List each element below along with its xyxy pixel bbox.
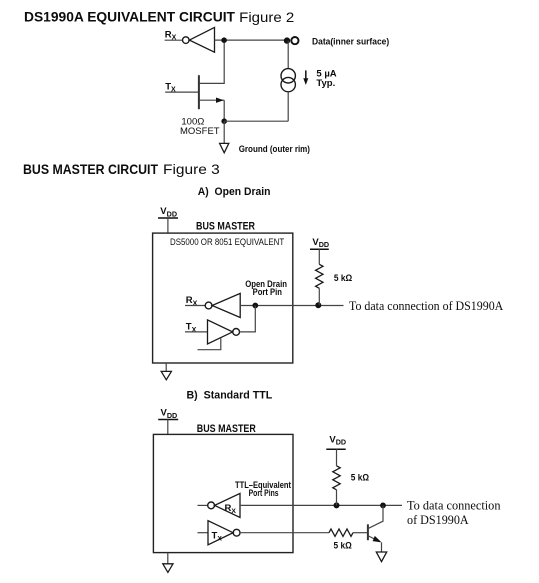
wire Rx data line (B) bbox=[240, 504, 402, 506]
wire source with arrow bbox=[200, 99, 225, 101]
inverter A-Tx bubble bbox=[233, 329, 240, 336]
svg-text:BUS MASTER CIRCUIT: BUS MASTER CIRCUIT bbox=[23, 162, 159, 177]
svg-text:Port Pins: Port Pins bbox=[249, 488, 279, 499]
svg-text:Typ.: Typ. bbox=[316, 78, 335, 89]
wire Rx input bbox=[165, 39, 183, 41]
wire VDD to box A bbox=[167, 218, 169, 233]
transistor Q1 channel bar bbox=[198, 75, 200, 109]
wire Tx stub (B) bbox=[198, 532, 209, 534]
svg-text:VDD: VDD bbox=[160, 206, 177, 218]
resistor R1 5k (A) bbox=[316, 264, 323, 288]
svg-text:VDD: VDD bbox=[329, 434, 346, 446]
wire Rx stub (B) bbox=[198, 504, 208, 506]
inverter U1 bubble bbox=[183, 37, 190, 44]
wire emitter to ground bbox=[381, 542, 383, 551]
wire VDD to resistor B bbox=[336, 449, 338, 466]
svg-text:Port Pin: Port Pin bbox=[253, 287, 283, 298]
inverter U1 triangle bbox=[189, 27, 214, 52]
wire resistor to junction A bbox=[318, 288, 320, 305]
wire from Data node down to current source bbox=[287, 41, 289, 69]
wire Tx output to resistor bbox=[240, 532, 329, 534]
ground (B right) bbox=[376, 552, 386, 562]
junction under resistor (B) bbox=[334, 502, 340, 508]
svg-text:of DS1990A: of DS1990A bbox=[407, 512, 469, 527]
svg-text:To data connection: To data connection bbox=[407, 498, 501, 513]
wire to ground bbox=[223, 121, 225, 143]
inverter B-Tx triangle bbox=[208, 521, 233, 545]
current source I1 (two overlapping circles) bbox=[281, 69, 295, 83]
wire VDD to resistor A bbox=[318, 249, 320, 264]
transistor Q2 base bar bbox=[367, 524, 369, 540]
inverter A-Rx triangle bbox=[212, 293, 240, 317]
svg-text:RX: RX bbox=[225, 503, 237, 515]
svg-text:To data connection of DS1990A: To data connection of DS1990A bbox=[349, 298, 504, 313]
wire Tx (A) bbox=[185, 331, 208, 333]
svg-text:VDD: VDD bbox=[312, 237, 329, 249]
inverter B-Rx bubble bbox=[208, 502, 215, 509]
svg-text:A) Open Drain: A) Open Drain bbox=[198, 186, 271, 198]
ground (B left) bbox=[163, 564, 173, 573]
svg-text:5 kΩ: 5 kΩ bbox=[334, 541, 353, 552]
wire source down to junction bbox=[223, 100, 225, 121]
svg-text:VDD: VDD bbox=[161, 408, 178, 420]
wire port pin line inside box bbox=[240, 305, 293, 307]
transistor Q2 collector bbox=[369, 505, 384, 528]
wire data top bbox=[215, 39, 289, 41]
node Data: filled dot bbox=[284, 37, 290, 43]
svg-text:Figure 3: Figure 3 bbox=[163, 162, 220, 177]
wire VDD to box B bbox=[167, 420, 169, 436]
wire data line out of box A bbox=[293, 305, 344, 307]
wire from current source down bbox=[287, 92, 289, 121]
junction port pin bbox=[252, 303, 258, 309]
wire box A to ground bbox=[165, 363, 167, 371]
wire bottom horizontal bbox=[224, 120, 288, 122]
svg-text:Data(inner surface): Data(inner surface) bbox=[312, 36, 389, 47]
svg-text:5 kΩ: 5 kΩ bbox=[351, 473, 370, 484]
wire box B to ground bbox=[167, 553, 169, 564]
terminal Data: open circle bbox=[291, 37, 298, 44]
svg-text:Figure 2: Figure 2 bbox=[239, 10, 294, 25]
box A bus master bbox=[153, 233, 293, 363]
svg-text:Ground (outer rim): Ground (outer rim) bbox=[239, 144, 310, 155]
inverter B-Tx bubble bbox=[233, 529, 240, 536]
junction below resistor A bbox=[315, 302, 321, 308]
resistor R2 5k pullup (B) bbox=[333, 466, 340, 490]
wire Rx (A) bbox=[185, 305, 205, 307]
junction node at inverter output bbox=[221, 37, 227, 43]
box B bus master bbox=[153, 434, 293, 552]
transistor Q2 emitter with arrow bbox=[369, 536, 380, 542]
wire Tx output up to port pin bbox=[240, 306, 256, 332]
svg-text:BUS MASTER: BUS MASTER bbox=[196, 220, 255, 232]
ground (figure 2) bbox=[220, 143, 229, 152]
svg-text:5 kΩ: 5 kΩ bbox=[334, 273, 353, 284]
svg-text:B) Standard TTL: B) Standard TTL bbox=[187, 389, 273, 401]
svg-text:BUS MASTER: BUS MASTER bbox=[197, 423, 256, 435]
wire resistor to base bbox=[353, 532, 367, 534]
resistor R3 5k series (B) bbox=[329, 529, 353, 536]
wire gate from Tx bbox=[165, 91, 198, 93]
svg-text:MOSFET: MOSFET bbox=[180, 126, 220, 137]
wire drain to data line bbox=[200, 43, 225, 84]
inverter B-Rx triangle bbox=[215, 493, 240, 517]
svg-text:DS1990A EQUIVALENT CIRCUIT: DS1990A EQUIVALENT CIRCUIT bbox=[24, 10, 236, 25]
junction at collector (B) bbox=[380, 503, 386, 509]
svg-text:DS5000 OR 8051 EQUIVALENT: DS5000 OR 8051 EQUIVALENT bbox=[170, 237, 284, 248]
inverter A-Rx bubble bbox=[205, 302, 212, 309]
svg-text:TX: TX bbox=[212, 530, 223, 542]
wire open-drain tail under Tx bbox=[198, 338, 221, 350]
arrow current direction bbox=[305, 70, 307, 79]
junction node bottom bbox=[221, 118, 227, 124]
wire resistor to junction B bbox=[336, 490, 338, 506]
ground (A) bbox=[161, 371, 171, 379]
inverter A-Tx triangle bbox=[208, 320, 233, 344]
